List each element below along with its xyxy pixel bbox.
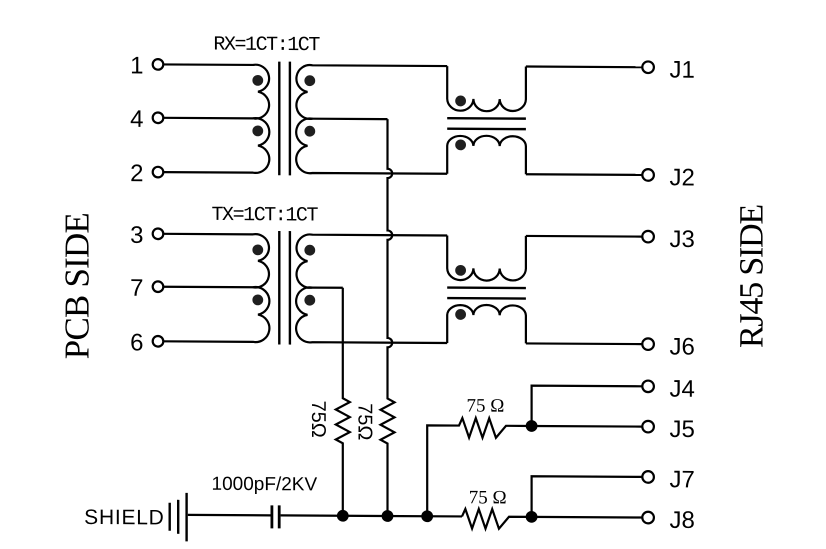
T2 primary polarity dot lower [252, 294, 263, 305]
resistor R3 75 ohm with riser from rail [427, 418, 531, 517]
L1 core [447, 118, 526, 129]
wire T2 secondary center tap horizontal [313, 286, 343, 288]
T2 primary polarity dot upper [252, 244, 263, 255]
T2 primary winding lower half and wire pin6 [163, 286, 269, 342]
junction node rail J7/J8 [526, 511, 538, 523]
svg-text:J6: J6 [670, 333, 695, 360]
T1 primary polarity dot upper [252, 75, 263, 86]
svg-text:75Ω: 75Ω [307, 400, 329, 437]
T2 secondary polarity dot upper [304, 245, 315, 256]
L1 choke top winding [447, 66, 526, 111]
svg-text:RX=1CT:1CT: RX=1CT:1CT [213, 34, 320, 58]
wire pin1 and T1 primary winding upper half [163, 64, 269, 118]
T1 secondary winding upper half and wire to L1 [296, 65, 447, 120]
svg-text:J2: J2 [670, 164, 695, 191]
wire L1 to J1 [526, 65, 642, 68]
svg-text:J4: J4 [670, 376, 695, 403]
T1 primary winding lower half and wire pin2 [163, 118, 269, 173]
svg-text:J1: J1 [670, 57, 695, 84]
wire T1 center tap vertical with crossover hops and resistor R1 75 ohm [381, 119, 395, 516]
svg-text:J5: J5 [670, 416, 695, 443]
T1 core [279, 62, 290, 176]
junction node J4/J5 [526, 420, 538, 432]
L2 polarity dot bottom winding [455, 309, 466, 320]
svg-text:RJ45 SIDE: RJ45 SIDE [734, 204, 771, 348]
T2 secondary winding upper half and wire to L2 [297, 234, 448, 288]
svg-text:PCB SIDE: PCB SIDE [58, 213, 97, 360]
terminal J2 [642, 169, 654, 181]
pin 2 terminal [153, 167, 164, 178]
svg-text:TX=1CT:1CT: TX=1CT:1CT [212, 204, 319, 228]
wire L2 to J6 [526, 342, 642, 345]
wire L1 to J2 [526, 173, 642, 176]
junction node rail x387 [382, 510, 394, 522]
terminal J7 [642, 471, 654, 483]
pin 7 terminal [153, 281, 164, 292]
junction node rail x427 [421, 510, 433, 522]
T2 secondary winding lower half and wire to L2 [296, 287, 447, 343]
svg-text:2: 2 [130, 160, 143, 187]
svg-text:6: 6 [130, 329, 143, 356]
wire T2 center tap vertical and resistor R2 75 ohm [336, 288, 350, 516]
T1 secondary polarity dot lower [304, 126, 315, 137]
terminal J8 [642, 512, 654, 524]
wire node to J5 [532, 425, 642, 428]
resistor R4 75 ohm and rail to J8 [462, 509, 642, 530]
wire T1 secondary center tap horizontal [313, 118, 388, 121]
terminal J4 [642, 381, 654, 393]
svg-text:1: 1 [130, 52, 143, 79]
wire node to J4 [532, 386, 642, 427]
wire pin3 and T2 primary winding upper half [163, 234, 269, 288]
L1 polarity dot top winding [455, 96, 466, 107]
pin 1 terminal [153, 59, 164, 70]
svg-text:J7: J7 [670, 466, 695, 493]
T1 secondary winding lower half and wire to L1 [296, 118, 447, 174]
svg-text:75Ω: 75Ω [353, 403, 375, 440]
L1 polarity dot bottom winding [455, 139, 466, 150]
svg-text:1000pF/2KV: 1000pF/2KV [212, 474, 318, 496]
wire node to J7 [532, 476, 642, 517]
svg-text:3: 3 [130, 222, 143, 249]
T2 secondary polarity dot lower [304, 295, 315, 306]
terminal J3 [642, 231, 654, 243]
svg-text:J3: J3 [670, 226, 695, 253]
wire shield to capacitor C1 [188, 514, 271, 517]
svg-text:J8: J8 [670, 507, 695, 534]
svg-text:4: 4 [130, 106, 143, 133]
terminal J6 [642, 338, 654, 350]
L2 choke top winding [447, 235, 526, 280]
pin 4 terminal [153, 112, 164, 123]
svg-text:75 Ω: 75 Ω [469, 487, 507, 508]
L1 choke bottom winding [447, 136, 526, 175]
svg-text:SHIELD: SHIELD [84, 506, 164, 529]
L2 choke bottom winding [447, 305, 526, 344]
wire L2 to J3 [526, 235, 642, 238]
wire pin7 to T2 primary center tap [163, 286, 253, 289]
svg-text:75 Ω: 75 Ω [467, 395, 505, 416]
capacitor C1 plates [272, 505, 279, 528]
T1 secondary polarity dot upper [304, 75, 315, 86]
shield symbol [170, 493, 187, 542]
L2 polarity dot top winding [455, 265, 466, 276]
T1 primary polarity dot lower [252, 125, 263, 136]
pin 6 terminal [153, 336, 164, 347]
pin 3 terminal [153, 228, 164, 239]
terminal J1 [642, 61, 654, 73]
wire pin4 to T1 primary center tap [163, 117, 253, 120]
junction node rail x343 [337, 510, 349, 522]
T2 core [279, 231, 290, 345]
terminal J5 [642, 421, 654, 433]
svg-text:7: 7 [130, 275, 143, 302]
L2 core [447, 288, 526, 299]
ground rail wire C1 to R4 [281, 515, 462, 516]
